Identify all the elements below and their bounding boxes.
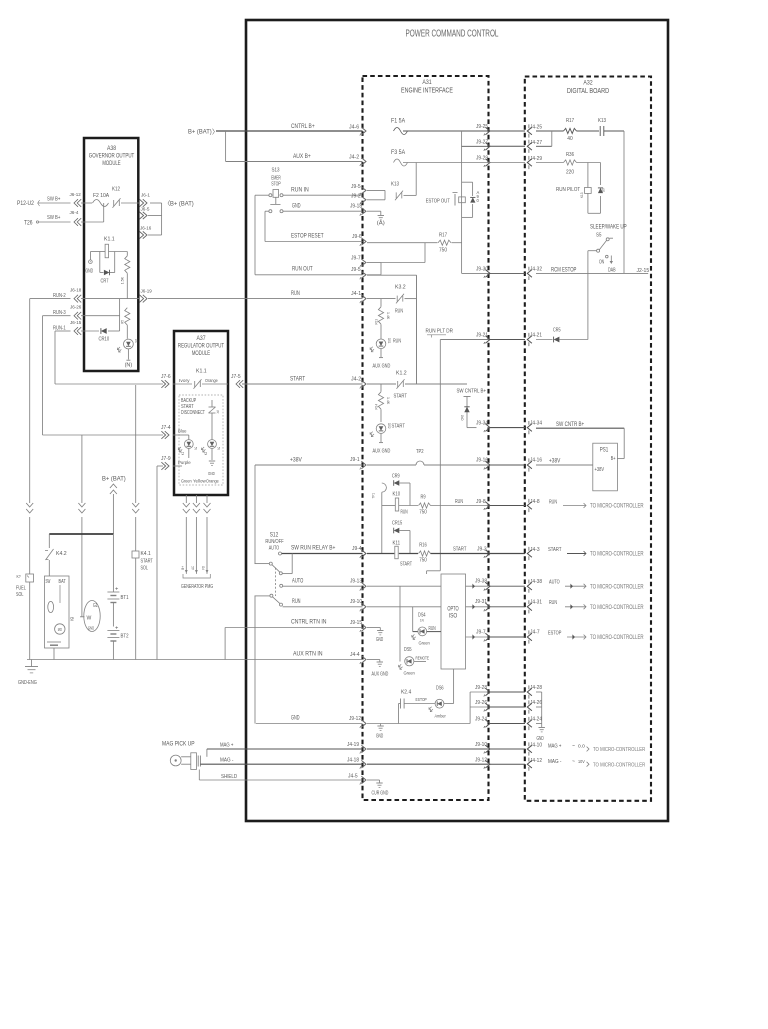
svg-text:K12: K12	[112, 187, 120, 193]
svg-text:RUN-2: RUN-2	[53, 293, 66, 299]
svg-text:J9-7: J9-7	[476, 629, 486, 635]
svg-text:SW: SW	[46, 579, 51, 585]
svg-text:AC: AC	[190, 566, 195, 570]
wire j7-6 into box	[173, 378, 192, 384]
wire start row through k1.2	[367, 383, 467, 385]
battery BT2	[107, 626, 128, 660]
svg-text:B+: B+	[180, 565, 185, 569]
backup start disconnect dashed box	[179, 395, 223, 485]
svg-text:K1.2: K1.2	[396, 371, 407, 377]
wire blue lead	[173, 429, 189, 440]
svg-text:K13: K13	[579, 193, 584, 199]
svg-text:G1: G1	[93, 603, 98, 609]
svg-text:+38V: +38V	[595, 467, 605, 473]
svg-text:750: 750	[419, 510, 427, 516]
wire J7-4 row	[43, 434, 164, 436]
svg-text:K13: K13	[391, 182, 399, 188]
wire run row through k3.2	[367, 298, 417, 300]
wire generator lead 1b	[180, 517, 186, 570]
wire run out continues to relay frame	[367, 275, 417, 384]
wire aux rtn gnd stub	[367, 660, 380, 662]
label START main	[290, 376, 361, 383]
led DS6 amber	[429, 669, 454, 720]
label RUN-1	[53, 320, 82, 332]
resistor R4 1.5K (A38 upper)	[120, 252, 130, 299]
svg-text:ESTOP: ESTOP	[548, 630, 562, 636]
wire start row left	[282, 553, 363, 555]
svg-text:CUR GND: CUR GND	[372, 791, 389, 797]
svg-text:ESTOP OUT: ESTOP OUT	[426, 199, 450, 205]
svg-text:RUN OUT: RUN OUT	[292, 266, 313, 273]
pin chevron J9-7 estop	[476, 629, 490, 641]
svg-text:J4-3: J4-3	[530, 547, 540, 553]
resistor R9 750	[419, 495, 431, 516]
svg-text:J4-19: J4-19	[347, 742, 359, 748]
pin chevron J4-3	[527, 547, 539, 560]
svg-text:START: START	[141, 559, 154, 565]
svg-text:J9-16: J9-16	[476, 458, 488, 464]
wire run pilot frame	[588, 163, 601, 214]
svg-text:TO MICRO-CONTROLLER: TO MICRO-CONTROLLER	[590, 605, 644, 611]
svg-text:J7-4: J7-4	[161, 425, 171, 431]
pin chevron J4-6 at A31 edge	[360, 127, 366, 135]
svg-text:DS5: DS5	[404, 647, 412, 653]
svg-text:J4-38: J4-38	[530, 579, 542, 585]
svg-text:R14: R14	[374, 403, 379, 409]
svg-text:RUN: RUN	[549, 500, 557, 506]
wire K13 to corner	[604, 130, 624, 132]
pin chevron J9-29	[476, 155, 490, 167]
pin chevron J7-5	[231, 374, 243, 388]
wire CNTRL RTN IN row	[225, 628, 362, 660]
svg-text:Purple: Purple	[178, 460, 191, 465]
pin chevron J9-10 mag	[475, 742, 490, 754]
relay contact K4.2	[45, 534, 67, 576]
svg-text:SW B+: SW B+	[47, 215, 61, 221]
wire F1 output row	[403, 130, 489, 132]
svg-text:DAB: DAB	[608, 268, 616, 274]
wire mag- inside	[367, 763, 489, 765]
pin chevron J9-8	[484, 502, 490, 510]
pin chevron J9-34	[476, 421, 490, 433]
wire b+ bat vertical	[112, 494, 114, 534]
svg-text:DISCONNECT: DISCONNECT	[181, 410, 205, 416]
svg-text:RCM ESTOP: RCM ESTOP	[551, 268, 576, 274]
module A32 digital board dashed box	[525, 77, 651, 801]
wire R17 to K13	[577, 130, 600, 132]
svg-text:BT1: BT1	[121, 595, 129, 601]
wire r16 to chevron	[431, 547, 489, 554]
svg-text:J9-15: J9-15	[350, 620, 362, 626]
svg-text:K11: K11	[393, 541, 401, 547]
wire SW CNTR B+ row to PS1	[536, 422, 624, 459]
wire gnd row inside	[367, 723, 470, 725]
wire T26 row inside	[81, 203, 104, 222]
pin chevron J4-2 start	[360, 380, 366, 388]
svg-text:J4-27: J4-27	[530, 140, 542, 146]
svg-text:POWER COMMAND CONTROL: POWER COMMAND CONTROL	[406, 29, 499, 40]
svg-text:J9-12: J9-12	[349, 716, 361, 722]
svg-text:J6-12: J6-12	[70, 192, 82, 198]
svg-text:AUX B+: AUX B+	[293, 153, 311, 160]
wire bundle row 707	[470, 706, 489, 708]
label ESTOP RESET	[291, 233, 362, 241]
svg-text:RUN/OFF: RUN/OFF	[265, 539, 284, 545]
svg-text:K13: K13	[598, 118, 606, 124]
relay contact K1.2	[396, 371, 407, 389]
wire P12-U2 SW B+ row	[17, 200, 71, 208]
wire mag- to micro	[548, 759, 645, 769]
svg-text:CNTRL RTN IN: CNTRL RTN IN	[291, 619, 327, 626]
wire j9-3 j4-3 row	[489, 553, 525, 555]
resistor R5 (A38 lower)	[120, 308, 130, 339]
diode CR7	[101, 270, 110, 285]
svg-text:CR9: CR9	[392, 474, 400, 480]
wire run-3 vertical	[42, 316, 44, 435]
svg-text:R9: R9	[420, 495, 425, 501]
wire k1.1 to j7-5	[202, 378, 228, 384]
fuse F1 5A	[391, 119, 408, 135]
wire AUTO row	[283, 579, 363, 587]
label CNTRL B+	[291, 123, 359, 131]
wire estop to micro	[548, 630, 644, 641]
label RUN IN	[291, 187, 309, 194]
svg-text:1.4K: 1.4K	[386, 397, 391, 405]
resistor R14 (start led)	[374, 384, 408, 410]
svg-text:J4-4: J4-4	[350, 652, 360, 658]
pin chevron J4-2 at A31 edge	[360, 158, 366, 166]
led RUN indicator (A31)	[370, 324, 401, 357]
wire rows 488-525 auto run estop	[489, 586, 525, 637]
pin chevron J9-26	[475, 700, 490, 712]
svg-text:PS1: PS1	[600, 448, 609, 454]
svg-text:T26: T26	[24, 221, 33, 227]
wire RUN row through A38	[81, 298, 139, 300]
pin chevron J4-38	[527, 579, 542, 593]
pin chevron J6-1	[139, 193, 150, 207]
node gnd circle K11	[86, 252, 94, 275]
ground gnd cntrl rtn	[376, 631, 384, 644]
wire cr5 to s5 vertical	[560, 339, 588, 341]
svg-text:BT2: BT2	[121, 634, 129, 640]
resistor R17 750 (A31)	[438, 233, 451, 254]
label AUX B+	[293, 153, 359, 161]
fuse F2 10A	[93, 193, 110, 207]
svg-text:TO MICRO-CONTROLLER: TO MICRO-CONTROLLER	[593, 763, 645, 769]
label SW B+ upper	[47, 197, 61, 203]
wire battery bus thick	[49, 533, 113, 535]
svg-text:DS1: DS1	[387, 338, 392, 344]
sensor MAG PICK UP	[162, 741, 200, 770]
svg-text:MODULE: MODULE	[102, 160, 121, 167]
svg-text:RUN IN: RUN IN	[291, 187, 309, 194]
pin chevron J4-8	[527, 499, 539, 512]
pin chevron J9-28	[475, 685, 490, 697]
svg-text:J4-21: J4-21	[530, 333, 542, 339]
svg-text:K2.4: K2.4	[401, 690, 411, 696]
svg-text:SOL: SOL	[16, 592, 23, 598]
svg-text:VR: VR	[216, 410, 220, 414]
wire K12 to J6-1	[121, 202, 139, 204]
wire cntrl rtn gnd stub	[367, 628, 380, 631]
generator pmg bracket	[181, 570, 213, 590]
led START indicator (A31)	[370, 409, 405, 442]
pin chevron RUN-2	[74, 295, 81, 303]
svg-text:MODULE: MODULE	[192, 350, 211, 357]
relay contact K13 (A32)	[598, 118, 606, 136]
wire generator lead 3	[206, 495, 208, 503]
wire AUX RTN IN row (ground bus)	[27, 659, 363, 661]
svg-text:BI: BI	[70, 617, 75, 621]
svg-text:CR10: CR10	[99, 337, 110, 343]
svg-text:J7-9: J7-9	[161, 456, 171, 462]
svg-text:GND: GND	[86, 269, 94, 275]
svg-text:J9-24: J9-24	[475, 717, 487, 723]
wire AUX B+ branch vertical	[225, 131, 227, 162]
pin chevron J4-28	[527, 685, 542, 699]
ground gnd a32 bundle	[537, 728, 545, 743]
wire +38V row	[255, 464, 363, 466]
svg-text:J6-19: J6-19	[141, 289, 153, 295]
pin chevron J9-3	[484, 550, 490, 558]
led DS8 a37	[202, 419, 221, 460]
wire run out bracket to estop vertical	[381, 243, 425, 263]
wire k10 column vertical	[381, 492, 383, 553]
svg-text:AUX GND: AUX GND	[373, 449, 391, 455]
wire row J9-27 seg	[462, 145, 489, 147]
svg-text:AUX RTN IN: AUX RTN IN	[293, 651, 323, 658]
switch S13 emer stop pushbutton	[269, 168, 283, 213]
svg-text:K1.1: K1.1	[104, 237, 115, 243]
svg-text:10V: 10V	[578, 759, 585, 765]
diode CR9	[392, 474, 410, 506]
svg-text:S13: S13	[272, 168, 280, 174]
node B+ (BAT) feed label	[188, 128, 219, 136]
diode LED run pilot	[598, 188, 606, 193]
svg-text:J9-5: J9-5	[351, 267, 361, 273]
svg-text:J9-5: J9-5	[351, 184, 361, 190]
svg-text:J4-25: J4-25	[530, 125, 542, 131]
power command control outer box	[246, 20, 668, 821]
svg-text:J9-28: J9-28	[475, 685, 487, 691]
pin chevron J4-31	[527, 599, 542, 613]
wire R36 to corner	[577, 162, 601, 164]
svg-text:K1: K1	[181, 452, 185, 455]
relay contact K12	[112, 187, 121, 208]
label green yellow orange	[181, 479, 219, 484]
svg-text:GND-ENG: GND-ENG	[18, 680, 37, 686]
wire start to micro	[548, 547, 644, 558]
ground cur gnd	[372, 783, 389, 797]
wire run-1 vertical	[54, 331, 56, 384]
svg-text:Blue: Blue	[178, 429, 187, 434]
arrow down gen lead 2	[193, 503, 200, 513]
svg-text:BAT: BAT	[59, 579, 66, 585]
wire gnd tap stub	[380, 724, 382, 726]
wire row J9-25 to J4-25	[489, 130, 525, 132]
svg-text:J9-26: J9-26	[475, 700, 487, 706]
svg-text:SOL: SOL	[141, 566, 148, 572]
svg-text:MAG -: MAG -	[548, 759, 561, 765]
wire run row inside	[367, 606, 441, 608]
node B+ (BAT) at J6-1	[164, 201, 194, 208]
svg-text:RUN-3: RUN-3	[53, 310, 66, 316]
label MAG+ left	[220, 742, 359, 749]
power supply PS1 box	[593, 443, 618, 491]
svg-text:TO MICRO-CONTROLLER: TO MICRO-CONTROLLER	[590, 585, 644, 591]
wire fuel sol down	[29, 582, 31, 660]
pin chevron J4-29	[527, 156, 542, 169]
led DS5	[399, 586, 429, 676]
wire bundle row 692	[470, 691, 489, 693]
wire RUN PLT DR	[426, 329, 489, 575]
svg-text:(A): (A)	[377, 221, 385, 227]
svg-text:MAG -: MAG -	[220, 758, 233, 764]
wire 38v to PS1	[536, 459, 593, 466]
transistor ESTOP OUT Q1	[426, 182, 480, 217]
svg-text:ESTOP: ESTOP	[416, 697, 427, 703]
pin chevron J7-9	[161, 456, 171, 470]
wire RUN-1 inside	[81, 330, 120, 332]
arrow down gen lead 1	[183, 503, 190, 513]
lamp DS (A38)	[117, 339, 139, 369]
wire gnd corner vertical	[254, 596, 256, 724]
label AUX GND start	[373, 449, 391, 455]
wire MAG- row	[200, 763, 362, 765]
svg-text:AUTO: AUTO	[549, 580, 560, 586]
pin chevron J9-16	[476, 458, 490, 470]
diode CR6 sw cntrl	[460, 407, 470, 421]
svg-text:J9-6: J9-6	[352, 234, 362, 240]
svg-text:MAG PICK UP: MAG PICK UP	[162, 741, 195, 748]
wire row J9-29 to J4-29	[489, 162, 525, 164]
svg-text:ESTOP RESET: ESTOP RESET	[291, 233, 324, 240]
wire mag+ mid	[489, 748, 525, 750]
svg-text:J6-15: J6-15	[70, 320, 82, 326]
pin chevron J9-6	[360, 238, 366, 246]
svg-text:J9-12: J9-12	[475, 757, 487, 763]
wire RUN row to A31	[148, 298, 363, 300]
wire auto row inside	[367, 585, 441, 587]
label SW RUN RELAY B+	[291, 545, 362, 553]
svg-text:RUN: RUN	[393, 339, 401, 345]
svg-text:J9-8: J9-8	[476, 499, 486, 505]
svg-text:J4-18: J4-18	[347, 758, 359, 764]
svg-text:GND: GND	[537, 736, 544, 742]
svg-text:DS: DS	[134, 339, 139, 343]
wire J4-29 to R36	[536, 162, 564, 164]
pin chevron auto J9-13	[360, 582, 366, 590]
svg-text:A32: A32	[583, 80, 593, 87]
wire RUN OUT row	[255, 274, 363, 276]
pin chevron J4-7	[527, 629, 539, 643]
svg-text:ON: ON	[599, 260, 604, 266]
wire corner down to rcm estop row	[623, 131, 625, 273]
wire RUN IN row	[255, 194, 363, 196]
svg-text:R16: R16	[419, 543, 427, 549]
optocoupler OPTO ISO box	[441, 574, 466, 669]
svg-text:J4-2: J4-2	[349, 155, 359, 161]
svg-text:R13: R13	[374, 319, 379, 325]
diode CR15	[392, 521, 410, 554]
label RCM ESTOP	[551, 268, 649, 274]
led DS4	[412, 607, 441, 647]
wire generator lead 2b	[190, 517, 196, 570]
svg-text:J9-38: J9-38	[475, 579, 487, 585]
fuse F3 5A	[391, 150, 408, 166]
wire GND row	[256, 723, 363, 725]
svg-text:CR15: CR15	[392, 521, 402, 527]
svg-text:RUN: RUN	[455, 499, 463, 505]
svg-text:RUN PILOT: RUN PILOT	[556, 187, 581, 193]
svg-text:START: START	[392, 424, 406, 430]
wire start sol down	[135, 558, 137, 660]
svg-text:J4-1: J4-1	[351, 291, 361, 297]
svg-text:B+ (BAT): B+ (BAT)	[102, 476, 126, 483]
svg-text:J6-5: J6-5	[141, 207, 150, 213]
svg-text:AUTO: AUTO	[269, 546, 280, 552]
svg-text:Green: Green	[404, 671, 416, 677]
svg-text:J9-2: J9-2	[351, 194, 361, 200]
svg-text:STOP: STOP	[271, 182, 281, 188]
svg-text:A31: A31	[422, 79, 432, 86]
wire RUN-3 bus row	[43, 315, 71, 317]
resistor R17 40 (A32)	[564, 118, 577, 142]
wire bundle right join	[536, 692, 542, 727]
svg-text:SLEEP/WAKE UP: SLEEP/WAKE UP	[590, 225, 627, 231]
label SW B+ lower	[47, 215, 61, 221]
svg-text:START: START	[290, 376, 305, 383]
svg-text:Amber: Amber	[435, 714, 447, 720]
svg-text:SW RUN RELAY B+: SW RUN RELAY B+	[291, 545, 336, 552]
svg-text:CR5: CR5	[553, 328, 561, 334]
svg-text:J7-6: J7-6	[161, 374, 171, 380]
pin chevron run J9-10	[360, 603, 366, 611]
solenoid K4.1 START SOL	[132, 551, 153, 572]
pin chevron J9-1 38v	[350, 457, 366, 470]
svg-text:J9-21: J9-21	[476, 333, 488, 339]
svg-text:S5: S5	[596, 233, 601, 239]
svg-text:220: 220	[566, 170, 574, 176]
pin chevron J9-38	[475, 579, 490, 591]
svg-text:RUN: RUN	[291, 290, 300, 297]
wire 38v row inside	[367, 464, 416, 466]
wire mag+ to micro	[548, 743, 645, 753]
wire J4-25 to R17	[536, 130, 564, 132]
diode CR5	[553, 328, 561, 343]
svg-text:J9-29: J9-29	[476, 155, 488, 161]
starter switch SW BAT box	[45, 576, 75, 660]
svg-text:J7-5: J7-5	[231, 374, 241, 380]
wire +38V corner vertical	[254, 465, 256, 564]
svg-text:〉: 〉	[212, 128, 219, 136]
svg-text:TO MICRO-CONTROLLER: TO MICRO-CONTROLLER	[590, 552, 644, 558]
arrow up b+ bat	[110, 484, 117, 494]
svg-text:J4-10: J4-10	[530, 742, 542, 748]
svg-text:FD: FD	[201, 566, 206, 570]
svg-text:J9-7: J9-7	[351, 256, 361, 262]
svg-text:J4-34: J4-34	[530, 421, 542, 427]
svg-text:TP1: TP1	[371, 493, 376, 499]
svg-text:J9-1: J9-1	[350, 457, 360, 463]
svg-text:J6-16: J6-16	[140, 226, 152, 232]
svg-text:J6-18: J6-18	[70, 288, 82, 294]
pin chevron J4-10	[527, 742, 542, 755]
capacitor K2.4 estop lamp	[399, 690, 435, 724]
solenoid FUEL SOL	[16, 574, 34, 598]
svg-text:A38: A38	[107, 145, 116, 152]
label CNTRL RTN IN	[291, 619, 362, 627]
